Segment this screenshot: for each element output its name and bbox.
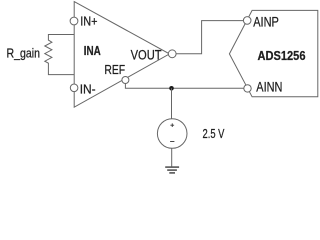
wire source to ground <box>171 148 173 167</box>
wire junction to source <box>171 88 173 118</box>
pin AINP circle <box>243 17 251 25</box>
svg-text:ADS1256: ADS1256 <box>258 49 306 63</box>
minus sign <box>170 141 174 143</box>
svg-text:IN+: IN+ <box>80 14 97 29</box>
junction node <box>169 86 174 91</box>
pin VOUT circle <box>168 50 176 58</box>
plus sign <box>170 123 174 127</box>
ground <box>165 166 179 168</box>
svg-text:INA: INA <box>84 44 101 58</box>
pin IN- circle <box>70 84 78 92</box>
pin IN+ circle <box>70 17 78 25</box>
wire REF to AINN <box>125 84 243 89</box>
IC U2 ADS1256 box <box>229 10 317 96</box>
pin AINN circle <box>244 85 251 92</box>
op-amp U1 INA triangle <box>74 2 169 108</box>
svg-text:AINP: AINP <box>253 14 279 29</box>
svg-text:R_gain: R_gain <box>7 46 41 61</box>
pin REF circle <box>122 77 129 84</box>
wire VOUT to AINP <box>176 21 243 54</box>
svg-text:IN-: IN- <box>80 81 96 96</box>
voltage source V1 2.5V circle <box>157 119 187 149</box>
svg-text:REF: REF <box>104 63 125 77</box>
svg-text:2.5 V: 2.5 V <box>203 127 225 141</box>
resistor R_gain <box>45 35 74 75</box>
svg-text:AINN: AINN <box>256 79 282 94</box>
svg-text:VOUT: VOUT <box>131 48 162 63</box>
